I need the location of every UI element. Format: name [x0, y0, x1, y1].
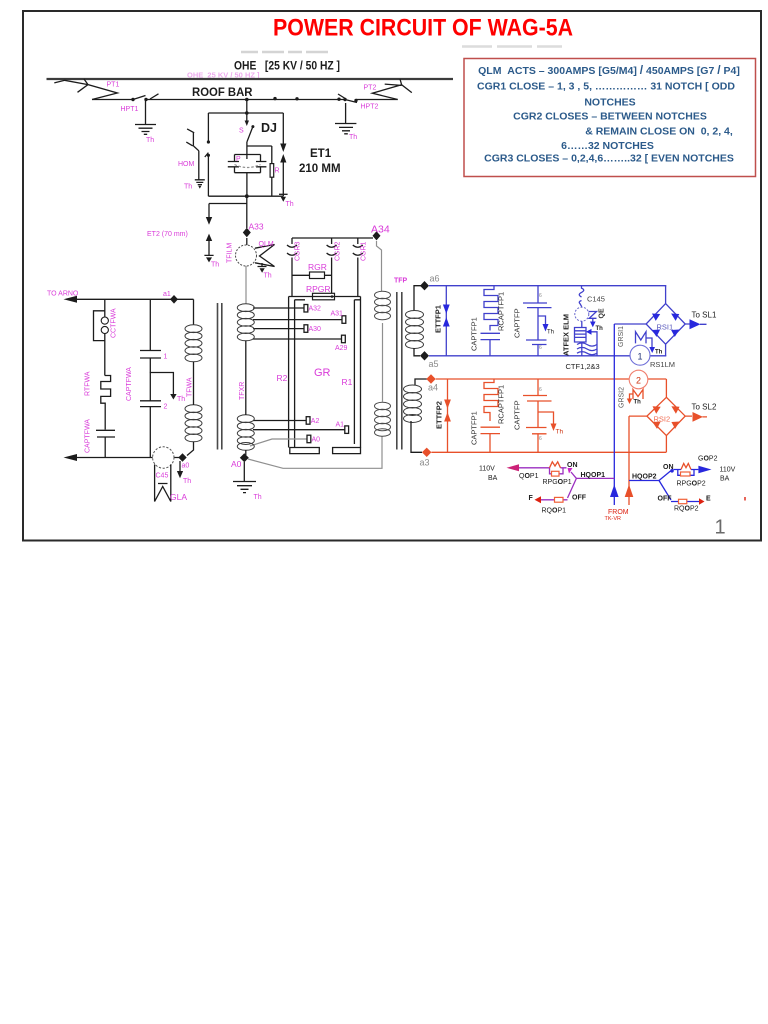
svg-text:TFWA: TFWA	[187, 377, 194, 397]
svg-text:RQOP1: RQOP1	[542, 508, 567, 515]
svg-text:A29: A29	[335, 345, 348, 352]
svg-text:Th: Th	[596, 326, 604, 332]
svg-text:2: 2	[636, 376, 641, 386]
feeder bus red (to HQOP2)	[629, 416, 647, 505]
relay GRS12 circle 2	[629, 370, 648, 389]
capacitor CGR1	[353, 238, 363, 297]
svg-text:Th: Th	[286, 201, 294, 208]
svg-text:QLM: QLM	[259, 241, 274, 248]
capacitor CAPTFP1 (red)	[481, 427, 501, 433]
svg-text:HPT2: HPT2	[361, 104, 379, 111]
svg-text:C145: C145	[587, 295, 605, 304]
svg-text:CAPTFWA: CAPTFWA	[126, 367, 133, 401]
svg-text:a1: a1	[163, 291, 171, 298]
info box	[464, 59, 756, 177]
switch HPT2	[345, 100, 357, 124]
svg-text:R1: R1	[342, 377, 353, 387]
svg-text:HQOP1: HQOP1	[581, 472, 606, 479]
svg-text:6: 6	[539, 293, 542, 299]
node a4	[426, 374, 435, 383]
svg-text:R: R	[275, 168, 280, 175]
svg-text:PT1: PT1	[107, 82, 120, 89]
winding TFXR	[237, 304, 254, 450]
junction dots on roof bar	[131, 98, 134, 101]
relay coil RPGOP2 with resistor	[674, 470, 699, 476]
svg-text:GRSI2: GRSI2	[618, 387, 625, 408]
svg-text:Th: Th	[184, 184, 192, 191]
wire TFILM to TFXR	[245, 266, 247, 304]
svg-text:NOTCHES: NOTCHES	[584, 97, 635, 109]
svg-text:P: P	[236, 156, 241, 163]
winding TFWA	[193, 299, 195, 325]
transformer core left	[218, 303, 222, 450]
svg-text:RCAPTFP1: RCAPTFP1	[497, 292, 506, 331]
node a6	[420, 281, 429, 290]
node a5	[420, 351, 429, 360]
svg-text:A32: A32	[309, 306, 322, 313]
svg-text:HPT1: HPT1	[121, 106, 139, 113]
tap A31	[253, 319, 342, 321]
wire red bottom bus	[431, 451, 666, 453]
svg-text:CGR1 CLOSE – 1, 3 , 5, …………… 3: CGR1 CLOSE – 1, 3 , 5, …………… 31 NOTCH [ …	[477, 81, 735, 93]
contact OFF + resistor RQOP1	[568, 478, 577, 498]
svg-text:6……32 NOTCHES: 6……32 NOTCHES	[561, 140, 654, 152]
tap-changer GR box	[289, 297, 361, 448]
svg-text:OFF: OFF	[572, 495, 587, 502]
wire blue top bus	[429, 285, 666, 287]
rectifier-bridge RS11	[646, 286, 685, 356]
transformer core right	[397, 292, 402, 450]
svg-text:POWER CIRCUIT OF WAG-5A: POWER CIRCUIT OF WAG-5A	[273, 15, 573, 42]
wire blue bottom bus	[429, 355, 666, 357]
svg-text:QOP1: QOP1	[519, 473, 539, 480]
ground HPT1	[135, 125, 156, 135]
svg-text:R2: R2	[277, 373, 288, 383]
svg-text:TFP: TFP	[394, 278, 408, 285]
relay GRS12 element	[633, 390, 643, 400]
svg-text:CAPTFP: CAPTFP	[513, 400, 522, 430]
earth arrow below a0	[179, 461, 181, 471]
winding TFP secondary 2	[415, 379, 427, 385]
svg-text:& REMAIN CLOSE ON 0, 2, 4,: & REMAIN CLOSE ON 0, 2, 4,	[585, 126, 733, 138]
winding TFP secondary 1	[414, 286, 421, 311]
svg-text:TFXR: TFXR	[239, 382, 246, 400]
wire ARNO top with arrow	[75, 298, 194, 300]
svg-text:RPGR: RPGR	[306, 284, 331, 294]
transducer ETTFP2	[447, 379, 449, 452]
wire roof bar	[92, 99, 398, 101]
svg-text:BA: BA	[720, 476, 730, 483]
node A33	[243, 228, 251, 238]
svg-text:ET1: ET1	[310, 148, 332, 160]
svg-text:a5: a5	[429, 359, 439, 369]
spark-gap ET1 earth	[279, 193, 288, 195]
capacitor CAPTFWA left	[96, 430, 115, 457]
svg-text:DJ: DJ	[261, 121, 277, 135]
wire roof bar to DJ	[246, 100, 248, 114]
svg-text:CGR1: CGR1	[361, 241, 368, 261]
svg-text:Th: Th	[183, 478, 191, 485]
svg-text:S: S	[239, 128, 244, 135]
switch S of DJ	[247, 113, 253, 159]
wire A34 to TFP primary	[377, 241, 382, 291]
svg-text:a4: a4	[428, 383, 438, 393]
svg-text:1: 1	[638, 352, 643, 362]
svg-text:TK-VR: TK-VR	[605, 516, 622, 522]
svg-text:RSI2: RSI2	[654, 415, 671, 424]
capacitor CGR2	[327, 238, 337, 297]
arrow 110V BA (QOP1)	[507, 464, 520, 471]
tap A30	[253, 328, 304, 330]
switch HPT1	[133, 96, 146, 125]
svg-text:CAPTFP: CAPTFP	[513, 308, 522, 338]
spark-gap ET1 arrows on DJ right branch	[280, 144, 286, 153]
svg-text:RSI1: RSI1	[657, 323, 674, 332]
meter circle 1 (RS1LM)	[630, 345, 650, 365]
svg-text:C45: C45	[156, 473, 169, 480]
svg-text:Th: Th	[655, 350, 663, 356]
svg-text:A34: A34	[371, 224, 390, 236]
rectifier-bridge RS12	[647, 379, 685, 452]
contactor CCTFWA	[94, 299, 105, 375]
svg-text:QE: QE	[599, 308, 606, 318]
svg-text:110V: 110V	[479, 466, 495, 473]
svg-text:CGR2 CLOSES – BETWEEN NOTCHES: CGR2 CLOSES – BETWEEN NOTCHES	[513, 111, 707, 123]
svg-text:6: 6	[539, 345, 542, 351]
resistor R of DJ	[247, 146, 272, 196]
node A34	[373, 231, 381, 240]
transducer ETTFP1	[445, 286, 447, 356]
svg-text:Th: Th	[211, 262, 219, 269]
svg-text:A33: A33	[249, 222, 264, 232]
wire DJ to A33	[246, 196, 248, 228]
wire OHE catenary line	[47, 78, 454, 80]
red tick mark	[744, 497, 746, 501]
node a0	[178, 453, 186, 462]
svg-text:Th: Th	[177, 396, 185, 403]
arrow 110V BA (QOP2)	[698, 466, 711, 474]
svg-text:a3: a3	[420, 458, 430, 468]
tap A29	[253, 338, 342, 340]
ground HOM	[195, 180, 205, 185]
svg-text:TFILM: TFILM	[227, 243, 234, 263]
contact OFF + resistor RQOP2	[659, 481, 671, 501]
svg-text:6: 6	[539, 387, 542, 393]
resistor RTFWA	[101, 376, 111, 430]
svg-text:FROM: FROM	[608, 509, 629, 516]
resistor RCAPTFP1 (blue)	[484, 286, 498, 331]
earth tap Th of CAPTFWA	[150, 373, 174, 395]
svg-text:ON: ON	[567, 462, 578, 469]
capacitor CAPTFP (red, double)	[523, 379, 552, 452]
capacitor C145	[579, 286, 584, 307]
svg-text:RPGOP2: RPGOP2	[677, 481, 706, 488]
pantograph PT2	[372, 79, 412, 100]
wire CGR top bus	[292, 237, 373, 239]
winding TFP primary	[375, 291, 391, 436]
svg-text:OFF: OFF	[658, 496, 673, 503]
svg-text:F: F	[529, 495, 534, 502]
svg-text:Th: Th	[146, 137, 154, 144]
svg-text:Th: Th	[254, 494, 262, 501]
capacitor CAPTFP (red) Th tap	[538, 412, 554, 424]
circuit-breaker DJ box	[208, 113, 283, 196]
capacitor 2 (CAPTFWA)	[140, 401, 161, 458]
relay QE circle	[575, 307, 589, 321]
svg-text:1: 1	[164, 354, 168, 361]
wire red top bus	[436, 378, 667, 380]
relay QLM	[255, 245, 275, 267]
wire roof bar clamp ticks	[150, 94, 346, 99]
wire HQOP1	[576, 477, 614, 479]
svg-text:ON: ON	[663, 464, 674, 471]
output arrow To SL1	[685, 323, 706, 325]
resistor RGR	[292, 274, 332, 276]
resistor RCAPTFP1 (red)	[484, 379, 498, 421]
svg-text:Th: Th	[547, 330, 554, 336]
svg-text:To SL2: To SL2	[692, 403, 717, 412]
contact ON (QOP2)	[659, 471, 671, 481]
ground A0	[243, 462, 245, 482]
capacitor CAPTFP Th tap	[538, 316, 546, 324]
svg-text:Th: Th	[264, 273, 272, 280]
output arrow To SL2	[685, 415, 707, 418]
wire A0 to TFP return (gray)	[248, 436, 382, 468]
svg-text:210 MM: 210 MM	[299, 163, 341, 175]
svg-text:A2: A2	[311, 418, 320, 425]
node a3	[422, 448, 431, 457]
ground QLM	[258, 263, 267, 267]
capacitor CAPTFP (blue, double)	[523, 286, 552, 356]
relay coil RPGOP1 with resistor	[517, 468, 567, 474]
svg-text:BA: BA	[488, 475, 498, 482]
pantograph PT1	[54, 79, 117, 100]
svg-text:GLA: GLA	[170, 492, 187, 502]
svg-text:a6: a6	[430, 274, 440, 284]
switch HOM	[186, 129, 199, 180]
svg-text:1: 1	[715, 517, 726, 539]
svg-text:RTFWA: RTFWA	[85, 371, 92, 396]
svg-text:a0: a0	[182, 463, 190, 470]
capacitor CGR3	[287, 238, 297, 297]
heater ATFEX ELM element	[575, 321, 587, 342]
tap-changer GR feet	[290, 448, 361, 454]
svg-text:RGR: RGR	[308, 262, 327, 272]
svg-text:A31: A31	[331, 311, 344, 318]
svg-text:CCTFWA: CCTFWA	[111, 308, 118, 338]
svg-text:A0: A0	[231, 459, 242, 469]
svg-text:TO ARNO: TO ARNO	[47, 291, 79, 298]
svg-text:GR: GR	[314, 367, 331, 379]
capacitor CAPTFP1 (blue)	[481, 333, 501, 339]
svg-text:CGR3: CGR3	[295, 241, 302, 261]
svg-text:CTF1,2&3: CTF1,2&3	[566, 362, 600, 371]
border frame	[23, 11, 761, 541]
svg-text:Th: Th	[634, 400, 642, 406]
svg-text:GRSI1: GRSI1	[618, 326, 625, 347]
svg-text:RCAPTFP1: RCAPTFP1	[497, 385, 506, 424]
feeder bus blue (to HQOP1)	[613, 324, 615, 505]
tap A0	[250, 439, 307, 446]
svg-text:To SL1: To SL1	[692, 311, 717, 320]
svg-text:110V: 110V	[720, 467, 736, 474]
svg-text:A0: A0	[312, 437, 321, 444]
svg-text:A1: A1	[336, 422, 345, 429]
relay GRS11	[636, 332, 647, 344]
svg-text:RPGOP1: RPGOP1	[543, 479, 572, 486]
svg-text:OHE [25 KV / 50 HZ ]: OHE [25 KV / 50 HZ ]	[234, 61, 340, 73]
capacitor 1 (CAPTFWA)	[140, 299, 161, 401]
svg-text:PT2: PT2	[364, 85, 377, 92]
svg-text:Th: Th	[349, 134, 357, 141]
spark-gap ET2 branch	[209, 204, 247, 218]
node a1	[170, 295, 178, 304]
svg-text:ROOF BAR: ROOF BAR	[192, 85, 253, 99]
svg-text:CGR3 CLOSES – 0,2,4,6……..32 [: CGR3 CLOSES – 0,2,4,6……..32 [ EVEN NOTCH…	[484, 153, 734, 165]
arrester GLA	[153, 447, 174, 468]
tap A2	[253, 420, 306, 422]
node A0	[245, 450, 247, 455]
resistor RPGR	[313, 293, 335, 300]
svg-text:RQOP2: RQOP2	[674, 506, 699, 513]
svg-text:CAPTFWA: CAPTFWA	[85, 419, 92, 453]
wire HQOP2	[629, 480, 659, 482]
wire ARNO bottom with arrow	[75, 457, 179, 459]
svg-text:ETTFP2: ETTFP2	[435, 401, 444, 429]
svg-text:GOP2: GOP2	[698, 456, 718, 463]
svg-text:Th: Th	[556, 429, 564, 436]
svg-text:6: 6	[539, 436, 542, 442]
interrupter P of DJ	[228, 155, 267, 197]
svg-text:ET2 (70 mm): ET2 (70 mm)	[147, 231, 188, 238]
svg-text:CAPTFP1: CAPTFP1	[470, 411, 479, 445]
svg-text:ATFEX ELM: ATFEX ELM	[562, 314, 571, 356]
svg-text:2: 2	[164, 404, 168, 411]
svg-text:HQOP2: HQOP2	[632, 474, 657, 481]
ground HPT2	[335, 124, 356, 134]
svg-text:RS1LM: RS1LM	[650, 360, 675, 369]
svg-text:CAPTFP1: CAPTFP1	[470, 317, 479, 351]
svg-text:CGR2: CGR2	[335, 241, 342, 261]
svg-text:QLM ACTS – 300AMPS [G5/M4] /: QLM ACTS – 300AMPS [G5/M4] / 450AMPS [G7…	[478, 63, 740, 77]
current-transformer TFILM	[246, 238, 248, 245]
svg-text:E: E	[706, 496, 711, 503]
tap A32	[253, 307, 304, 309]
tap A1	[253, 429, 345, 431]
svg-text:A30: A30	[309, 326, 322, 333]
svg-text:HOM: HOM	[178, 161, 195, 168]
ghost marks under title	[241, 51, 328, 54]
svg-text:ETTFP1: ETTFP1	[434, 305, 443, 333]
